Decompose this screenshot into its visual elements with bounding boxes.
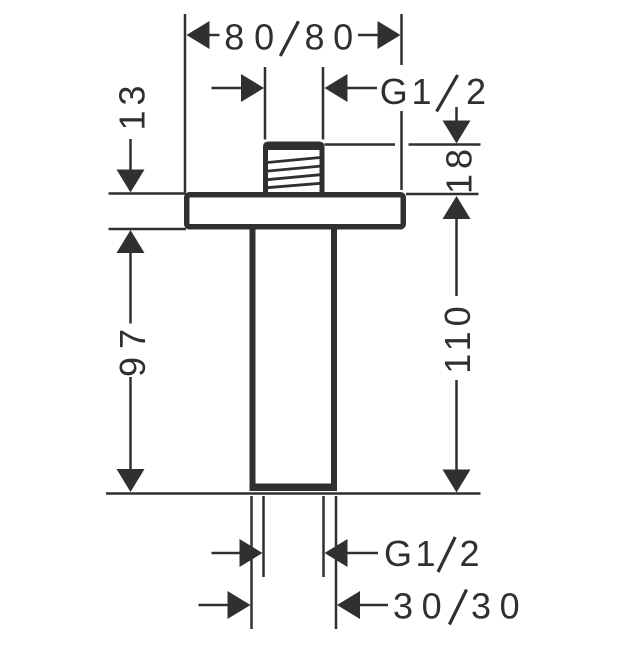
arrow 13 down	[117, 170, 145, 193]
extension line 30/30 left	[250, 496, 253, 629]
thread hatch line 1	[267, 156, 321, 164]
extension line pipe bottom	[106, 492, 481, 495]
label G1/2 top	[380, 71, 486, 112]
dim G1/2 top right tail	[346, 87, 377, 90]
svg-text:13: 13	[112, 80, 153, 130]
svg-text:8: 8	[224, 17, 244, 58]
svg-text:2: 2	[466, 71, 486, 112]
arrow G1/2 top right	[325, 74, 348, 102]
threaded connector left wall	[263, 148, 268, 194]
arrow 97 down	[117, 469, 145, 492]
extension line 30/30 right	[335, 496, 338, 629]
dim 30/30 right tail	[358, 604, 388, 607]
arrow 30/30 left	[228, 591, 251, 619]
dim 13 line above plate	[129, 139, 132, 171]
extension line right of 80/80 upper segment	[400, 14, 403, 65]
arrow G1/2 bottom left	[240, 539, 263, 567]
thread hatch line 2	[267, 165, 321, 173]
dim 80/80 right tail	[358, 34, 379, 37]
svg-text:110: 110	[437, 301, 478, 373]
svg-text:3: 3	[393, 585, 413, 626]
extension line left of 80/80	[184, 14, 187, 193]
extension line thread top right (right segment)	[409, 143, 481, 146]
extension line plate top right	[406, 193, 479, 196]
svg-text:2: 2	[459, 533, 479, 574]
dim G1/2 top left tail	[212, 87, 244, 90]
svg-text:8: 8	[304, 17, 324, 58]
arrow 30/30 right	[337, 591, 360, 619]
extension line plate bottom left	[109, 228, 187, 231]
svg-text:18: 18	[439, 144, 480, 194]
pipe bottom cap	[250, 484, 338, 492]
dim 80/80 left tail	[208, 34, 220, 37]
dim 30/30 left tail	[199, 604, 230, 607]
thread hatch line 3	[267, 173, 321, 181]
dim 18 stub above arrow	[455, 107, 458, 122]
extension line G1/2 bottom right	[322, 496, 325, 577]
svg-text:3: 3	[471, 585, 491, 626]
extension line thread top right (left segment)	[325, 143, 396, 146]
dim 110 line lower	[455, 380, 458, 470]
pipe right wall	[331, 227, 337, 484]
svg-text:1: 1	[415, 533, 435, 574]
threaded connector top bar	[263, 142, 325, 151]
label 30/30	[393, 585, 520, 626]
dim G1/2 bottom left tail	[212, 552, 242, 555]
arrow 110 down	[443, 470, 471, 493]
extension line G1/2 top left	[264, 67, 267, 140]
arrow G1/2 top left	[241, 74, 264, 102]
label 80/80	[224, 17, 353, 58]
pipe left wall	[250, 227, 256, 484]
label G1/2 bottom	[384, 533, 480, 574]
svg-text:G: G	[384, 533, 412, 574]
dim 97 line lower	[129, 377, 132, 469]
extension line G1/2 bottom left	[262, 496, 265, 577]
arrow 110 up	[443, 196, 471, 219]
svg-text:0: 0	[254, 17, 274, 58]
extension line right of 80/80 lower segment	[400, 111, 403, 190]
threaded connector right wall	[320, 148, 325, 194]
thread hatch line 4	[267, 182, 321, 189]
svg-text:1: 1	[411, 71, 431, 112]
extension line G1/2 top right	[322, 67, 325, 140]
dim 110 line upper	[455, 218, 458, 296]
dim G1/2 bottom right tail	[346, 552, 378, 555]
arrow 80/80 right	[378, 21, 401, 49]
arrow G1/2 bottom right	[325, 539, 348, 567]
arrow 80/80 left	[187, 21, 210, 49]
svg-text:97: 97	[112, 321, 153, 377]
ceiling plate	[187, 195, 404, 227]
arrow 13/97 up	[117, 230, 145, 253]
svg-text:G: G	[380, 71, 408, 112]
arrow 18 down	[443, 121, 471, 144]
extension line plate top left	[109, 192, 187, 195]
svg-text:0: 0	[500, 585, 520, 626]
dim 97 line upper	[129, 252, 132, 324]
svg-text:0: 0	[422, 585, 442, 626]
svg-text:0: 0	[333, 17, 353, 58]
